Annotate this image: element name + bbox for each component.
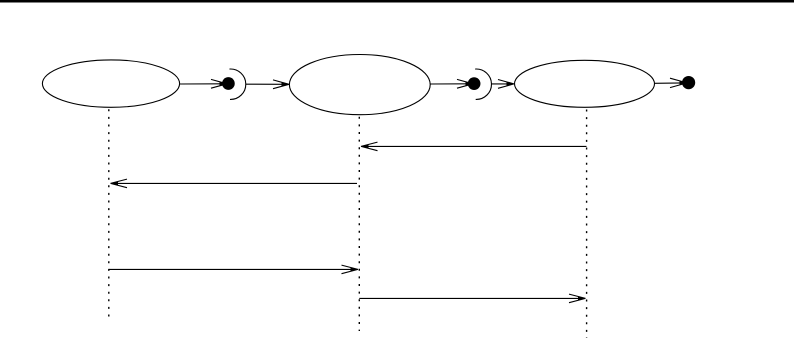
end node circle: [682, 76, 695, 89]
wire S2 to ball B2: [430, 83, 470, 85]
arrowhead into ball B1: [211, 79, 227, 88]
wire A2 to S3: [491, 83, 510, 85]
lifeline L3: [586, 110, 588, 338]
lifeline L2: [358, 117, 360, 331]
state ellipse S1: [42, 60, 179, 107]
arrowhead into S3: [498, 80, 514, 89]
message M1 (L3 to L2, left): [361, 142, 587, 151]
wire S1 to ball B1: [180, 83, 225, 85]
state ellipse S3: [515, 60, 655, 107]
arrowhead into S2: [273, 80, 289, 89]
lifeline L1: [108, 109, 110, 317]
socket arc A1: [230, 69, 246, 99]
wire S3 to end node: [655, 82, 685, 84]
socket arc A2: [475, 69, 491, 99]
ball B2: [468, 77, 481, 90]
message M3 (L1 to L2, right): [109, 265, 358, 274]
wire A1 to S2: [246, 83, 286, 85]
arrowhead into ball B2: [457, 79, 473, 88]
message M4 (L2 to L3, right): [359, 294, 585, 303]
message M2 (L2 to L1, left): [111, 179, 358, 188]
state ellipse S2: [289, 55, 430, 115]
top rule: [0, 0, 794, 3]
ball B1: [222, 77, 235, 90]
arrowhead into end node: [670, 78, 687, 87]
